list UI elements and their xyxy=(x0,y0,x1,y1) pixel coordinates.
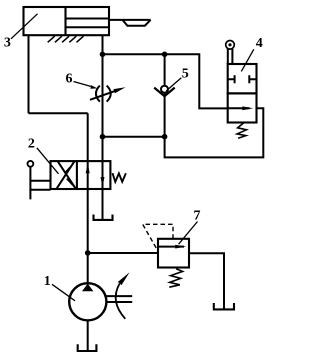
wire: main line from cylinder right port down to tank under valve 2 xyxy=(102,35,104,219)
valve U4 flow arrow xyxy=(228,107,250,109)
leader line for label 3 xyxy=(11,14,38,39)
tank under valve 2 xyxy=(94,215,113,220)
rod extension to tool xyxy=(109,19,151,21)
valve U4 spring xyxy=(237,123,246,138)
check valve 5 seat xyxy=(154,88,175,97)
svg-text:3: 3 xyxy=(4,35,11,50)
node junction dot D xyxy=(162,134,168,140)
valve V2 parallel arrows (right position) xyxy=(86,163,90,173)
tool bit on rod xyxy=(123,20,151,26)
valve U4 stem xyxy=(228,49,233,64)
valve U4 roller xyxy=(226,41,235,50)
piston of cylinder 3 xyxy=(64,7,66,35)
node junction dot B xyxy=(162,52,168,58)
relief valve 7 flow arrow xyxy=(158,246,184,248)
svg-text:4: 4 xyxy=(256,36,263,51)
node junction dot A xyxy=(100,52,106,58)
wire: junction cross line xyxy=(103,136,165,138)
valve V2 crossed arrows (left position) xyxy=(56,161,76,189)
svg-text:6: 6 xyxy=(66,72,73,87)
wire: pump outlet to relief valve xyxy=(88,252,158,254)
wire: vertical pump-side line through valve 2 down to pump xyxy=(87,113,89,283)
leader line for label 7 xyxy=(179,222,198,245)
relief valve 7 spring xyxy=(169,269,182,287)
leader line for label 5 xyxy=(166,78,181,91)
cylinder C (item 3) body xyxy=(24,7,110,35)
svg-text:1: 1 xyxy=(44,274,51,289)
wire: pump suction xyxy=(87,320,89,350)
valve U4 upper box (closed position) xyxy=(228,64,257,93)
mounting hatch marks under cylinder xyxy=(48,36,84,42)
pump P1 drive shaft xyxy=(106,296,133,302)
relief valve 7 pilot line (dashed) xyxy=(143,224,173,250)
valve U4 closed-port T symbols xyxy=(228,75,257,83)
leader line for label 1 xyxy=(52,284,75,301)
node junction dot C xyxy=(100,134,106,140)
wire: top horizontal to valve 4 xyxy=(103,54,228,108)
throttle valve 6 arcs xyxy=(96,86,111,102)
wire: check valve branch xyxy=(164,54,166,136)
leader line for label 4 xyxy=(241,49,254,71)
leader line for label 2 xyxy=(37,148,59,174)
leader line for label 6 xyxy=(74,82,93,87)
svg-text:7: 7 xyxy=(194,208,201,223)
svg-text:2: 2 xyxy=(28,136,35,151)
svg-text:5: 5 xyxy=(182,67,189,82)
pump P1 outlet triangle xyxy=(82,284,93,292)
valve U4 lower box (open position) xyxy=(228,93,257,122)
pump P1 variable arrow (curved) xyxy=(116,284,126,319)
right tank xyxy=(214,303,234,309)
relief valve 7 body xyxy=(158,239,189,268)
pump suction tank xyxy=(78,344,97,351)
valve V2 divider xyxy=(76,161,78,189)
valve V2 plunger actuator xyxy=(28,161,34,167)
valve V2 spring xyxy=(113,173,126,182)
check valve 5 ball xyxy=(161,86,168,93)
wire: valve 4 outlet loop back to check-valve junction xyxy=(165,108,264,157)
wire: cylinder left port down xyxy=(28,35,30,113)
throttle valve 6 adjust arrow xyxy=(90,91,116,100)
piston rod (double line) xyxy=(66,19,110,28)
pump P1 circle xyxy=(69,283,106,320)
node junction dot E (pump outlet) xyxy=(85,250,91,256)
wire: horizontal to valve 2 top left port xyxy=(29,112,88,114)
wire: relief valve to right tank xyxy=(189,253,224,308)
valve V2 body xyxy=(51,161,111,189)
